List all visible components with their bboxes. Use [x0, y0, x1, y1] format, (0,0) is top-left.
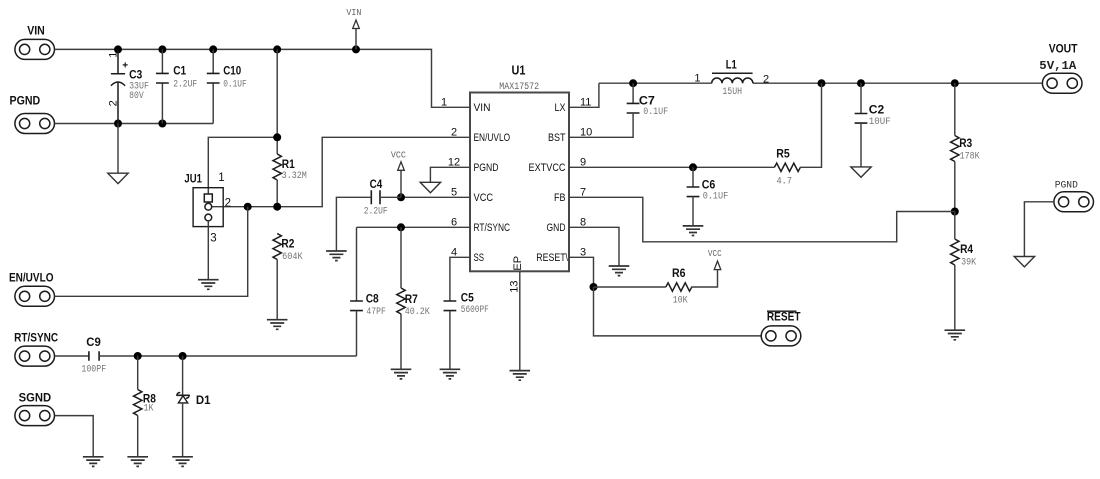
svg-text:100PF: 100PF: [81, 365, 106, 376]
wire D1 lower lead: [182, 403, 184, 457]
wire EXTVCC pin9: [569, 166, 774, 168]
svg-text:0.1UF: 0.1UF: [703, 192, 729, 203]
wire R3 lower lead: [954, 162, 956, 212]
svg-text:VCC: VCC: [474, 192, 494, 204]
svg-text:EN/UVLO: EN/UVLO: [474, 132, 511, 144]
svg-text:178K: 178K: [960, 152, 980, 163]
capacitor C4: [364, 179, 388, 218]
wire C7 upper lead: [632, 83, 634, 103]
capacitor C2: [855, 105, 891, 129]
ground (earth) C6: [683, 226, 704, 236]
wire VCC flag stem: [400, 170, 402, 197]
wire GND pin8: [569, 227, 619, 266]
svg-text:3.32M: 3.32M: [282, 171, 307, 182]
ground (earth) EP: [510, 371, 531, 381]
wire R8 lower lead: [137, 416, 139, 457]
resistor R2: [273, 234, 303, 264]
connector J-PGND-out: [1054, 181, 1094, 212]
svg-text:RESET\: RESET\: [536, 252, 568, 264]
svg-text:VIN: VIN: [346, 7, 361, 18]
wire R5 to VOUT rail: [800, 83, 822, 167]
junction input gnd rail / C3: [114, 120, 122, 128]
junction C9 rail / D1: [179, 352, 187, 360]
svg-text:JU1: JU1: [184, 174, 202, 186]
svg-text:47PF: 47PF: [366, 307, 386, 318]
wire C5 lower lead: [449, 311, 451, 370]
jumper JU1: [184, 172, 231, 245]
resistor R5: [774, 149, 800, 188]
wire RESET to R6: [594, 286, 666, 288]
inductor L1: [694, 59, 769, 98]
wire EN/UVLO pin2 of U1: [212, 137, 470, 206]
junction top rail / C1: [158, 45, 166, 53]
junction pin2 rail / EN-UVLO conn: [244, 203, 252, 211]
svg-text:C1: C1: [173, 66, 187, 78]
capacitor C7: [627, 95, 669, 118]
wire PGND input rail: [55, 123, 214, 125]
wire EP lead: [519, 271, 521, 370]
ground (open triangle) C2: [851, 167, 871, 177]
junction top rail / R1: [273, 45, 281, 53]
junction R1 / JU1 pin1: [273, 133, 281, 141]
svg-text:0.1UF: 0.1UF: [643, 107, 668, 118]
resistor R8: [134, 390, 157, 416]
wire VIN top rail: [55, 49, 470, 107]
svg-text:C10: C10: [223, 66, 241, 78]
svg-text:MAX17572: MAX17572: [499, 82, 539, 93]
ground (earth) C4: [326, 251, 347, 261]
ground (earth) U1 GND pin8: [609, 266, 630, 276]
junction VOUT rail / R3: [951, 79, 959, 87]
wire PGND pin12: [430, 167, 470, 182]
connector J-RESET: [761, 311, 801, 346]
ground (earth) D1: [172, 457, 193, 467]
svg-text:1K: 1K: [144, 403, 154, 414]
svg-text:BST: BST: [548, 132, 566, 144]
capacitor C8: [350, 293, 386, 318]
connector J-SGND: [15, 393, 55, 426]
wire R3 upper lead: [954, 83, 956, 135]
svg-text:15UH: 15UH: [722, 87, 742, 98]
wire R1 lower lead: [276, 180, 278, 207]
junction input gnd rail / C1: [158, 120, 166, 128]
connector J-VOUT: [1039, 44, 1082, 93]
svg-text:R6: R6: [672, 268, 686, 280]
capacitor C5: [444, 292, 489, 316]
svg-text:D1: D1: [196, 395, 211, 407]
wire C9 rail to C8: [99, 355, 356, 357]
ground (earth) R2: [267, 320, 288, 330]
capacitor C1: [156, 66, 197, 91]
junction LX rail / C7: [629, 79, 637, 87]
svg-text:L1: L1: [726, 59, 737, 71]
wire C6 lower lead: [692, 197, 694, 226]
wire C1 leads: [161, 49, 163, 123]
wire R8 upper lead: [137, 356, 139, 390]
power flag VCC (U1): [391, 150, 406, 171]
svg-text:SS: SS: [474, 252, 485, 264]
wire C7 to BST pin10: [569, 113, 633, 137]
svg-text:2: 2: [225, 197, 231, 209]
svg-text:VOUT: VOUT: [1049, 44, 1078, 56]
connector J-PGND: [10, 95, 55, 133]
wire R7 upper lead: [400, 227, 402, 288]
junction top rail / C10: [209, 45, 217, 53]
wire EN/UVLO conn to pin2 rail: [55, 207, 248, 297]
svg-text:1: 1: [441, 97, 447, 109]
svg-text:C3: C3: [129, 69, 142, 81]
svg-text:R1: R1: [282, 159, 296, 171]
wire RESET to connector: [594, 287, 762, 336]
wire VIN flag stem: [355, 29, 357, 50]
wire C6 upper lead: [692, 167, 694, 187]
capacitor C3 (polarized): [107, 49, 149, 123]
svg-text:SGND: SGND: [19, 393, 52, 405]
wire RT/SYNC pin6: [357, 226, 471, 228]
junction VOUT rail / C2: [857, 79, 865, 87]
junction top rail / VIN flag: [352, 45, 360, 53]
wire JU1 pin3 lead: [207, 221, 209, 280]
svg-text:VIN: VIN: [27, 26, 45, 38]
wire R2 lower lead: [276, 260, 278, 320]
ground (open triangle) U1 PGND: [420, 182, 440, 192]
ground (earth) SGND: [83, 457, 104, 467]
svg-text:R2: R2: [281, 238, 294, 250]
ground (earth) C5: [440, 369, 461, 379]
wire C2 lower lead: [860, 123, 862, 167]
wire C10 leads: [212, 49, 214, 123]
ground (open triangle) PGND-out: [1014, 257, 1034, 267]
junction FB node: [951, 208, 959, 216]
svg-text:C5: C5: [461, 292, 475, 304]
wire SGND lead: [55, 416, 93, 457]
svg-text:RT/SYNC: RT/SYNC: [14, 333, 58, 345]
resistor R3: [951, 136, 980, 163]
resistor R6: [666, 268, 692, 307]
svg-text:EP: EP: [512, 256, 524, 271]
svg-text:R4: R4: [960, 244, 974, 256]
svg-text:R3: R3: [959, 138, 972, 150]
svg-text:C9: C9: [86, 337, 101, 349]
wire FB pin7 to divider: [569, 197, 955, 242]
capacitor C9: [81, 337, 106, 375]
junction top rail / C3: [114, 45, 122, 53]
svg-text:3: 3: [210, 233, 216, 245]
svg-text:PGND: PGND: [474, 162, 499, 174]
wire C2 upper lead: [860, 83, 862, 113]
capacitor C10: [207, 66, 247, 91]
wire R7 lower lead: [400, 314, 402, 369]
ground (open triangle) input: [108, 173, 128, 183]
svg-text:5600PF: 5600PF: [461, 305, 489, 316]
svg-text:C4: C4: [370, 179, 383, 191]
wire C8 lower lead: [356, 311, 358, 356]
svg-text:EN/UVLO: EN/UVLO: [9, 272, 54, 284]
wire R1 upper lead: [276, 49, 278, 154]
wire R4 lower lead: [954, 265, 956, 330]
svg-text:1: 1: [107, 52, 119, 58]
svg-text:2.2UF: 2.2UF: [364, 207, 388, 218]
junction VOUT rail / R5 branch: [818, 79, 826, 87]
svg-text:RESET: RESET: [767, 312, 801, 324]
wire RESET pin3: [569, 257, 594, 287]
wire VOUT rail: [753, 82, 1042, 84]
wire PGND-out lead: [1024, 202, 1053, 257]
ground (earth) R7: [391, 369, 412, 379]
svg-text:604K: 604K: [282, 252, 303, 263]
svg-text:10UF: 10UF: [869, 117, 891, 128]
wire C8 upper lead: [356, 227, 358, 301]
wire JU1 pin1 to R1 node: [208, 137, 277, 193]
svg-text:40.2K: 40.2K: [405, 307, 430, 318]
junction RESET node: [590, 283, 598, 291]
power flag VCC (R6): [708, 248, 722, 269]
resistor R4: [951, 239, 977, 269]
svg-text:GND: GND: [547, 222, 566, 234]
wire RT/SYNC conn to C9: [55, 355, 89, 357]
svg-text:R7: R7: [405, 294, 418, 306]
svg-text:10K: 10K: [673, 296, 688, 307]
svg-text:C2: C2: [869, 105, 884, 117]
junction VCC pin5 / C4: [397, 193, 405, 201]
svg-text:1: 1: [694, 73, 700, 85]
diode D1 (zener): [177, 356, 211, 407]
ground (earth) JU1 pin3: [198, 280, 219, 290]
ground (earth) R4: [945, 330, 966, 340]
junction pin2 rail / R1-R2: [273, 203, 281, 211]
wire R4 upper lead: [954, 212, 956, 240]
resistor R1: [273, 154, 307, 182]
ground (earth) R8: [127, 457, 148, 467]
connector J-VIN: [15, 26, 55, 60]
svg-text:2: 2: [763, 74, 769, 86]
svg-text:1: 1: [218, 172, 224, 184]
IC U1 MAX17572: [470, 62, 569, 271]
wire R6 to VCC flag: [691, 270, 717, 287]
power flag VIN: [346, 7, 361, 29]
svg-text:PGND: PGND: [10, 95, 41, 107]
svg-text:2.2UF: 2.2UF: [173, 80, 197, 91]
svg-text:2: 2: [107, 100, 119, 106]
svg-text:13: 13: [508, 280, 520, 292]
svg-text:0.1UF: 0.1UF: [223, 80, 247, 91]
junction C9 rail / R8: [134, 352, 142, 360]
svg-text:5V,1A: 5V,1A: [1039, 59, 1077, 73]
svg-text:U1: U1: [512, 62, 526, 77]
svg-text:2: 2: [451, 127, 457, 139]
svg-text:LX: LX: [555, 102, 567, 114]
resistor R7: [397, 288, 430, 318]
capacitor C6: [687, 179, 729, 202]
svg-text:PGND: PGND: [1055, 181, 1078, 192]
svg-text:EXTVCC: EXTVCC: [529, 162, 566, 174]
wire SS pin4: [450, 257, 470, 301]
svg-text:VCC: VCC: [708, 248, 722, 259]
connector J-RT/SYNC: [14, 333, 58, 367]
svg-text:RT/SYNC: RT/SYNC: [474, 222, 511, 234]
svg-text:80V: 80V: [129, 91, 144, 102]
svg-text:VCC: VCC: [391, 150, 406, 161]
svg-text:C8: C8: [366, 293, 380, 305]
svg-text:VIN: VIN: [474, 102, 491, 114]
svg-text:R5: R5: [776, 149, 790, 161]
junction EXTVCC / C6: [689, 163, 697, 171]
junction RT/SYNC / R7: [397, 223, 405, 231]
wire LX pin11: [569, 83, 599, 107]
svg-text:C7: C7: [639, 95, 655, 107]
svg-text:39K: 39K: [961, 258, 976, 269]
svg-text:FB: FB: [554, 192, 566, 204]
wire VCC pin5: [401, 196, 470, 198]
svg-text:4.7: 4.7: [777, 177, 793, 188]
connector J-EN/UVLO: [9, 272, 55, 306]
svg-text:C6: C6: [702, 179, 716, 191]
wire C4 right lead: [380, 196, 401, 198]
wire LX rail: [599, 82, 712, 84]
wire C4 left lead: [336, 197, 371, 251]
wire input gnd stem: [117, 124, 119, 174]
